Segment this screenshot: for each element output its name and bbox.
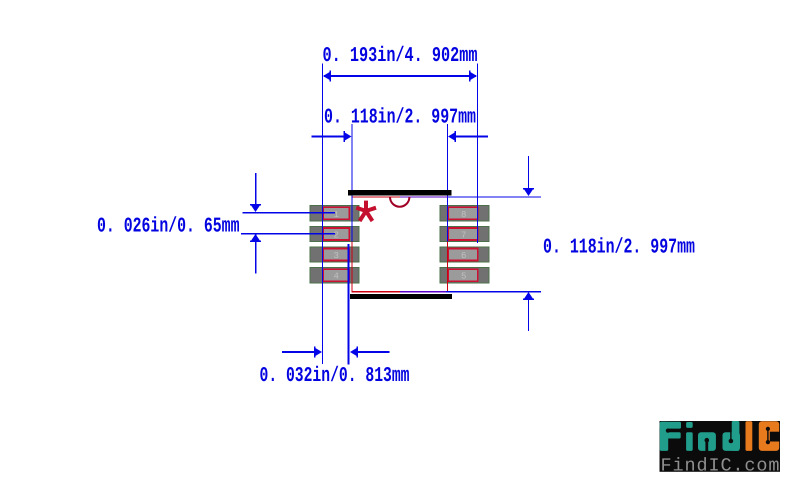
- pad 5: [440, 267, 489, 282]
- svg-text:7: 7: [461, 231, 466, 241]
- arrow line right pointing left: [455, 136, 488, 138]
- extension line x=352: [352, 124, 353, 241]
- svg-text:6: 6: [461, 251, 466, 261]
- pin 7 lead: [448, 228, 477, 240]
- FindIC logo background: [660, 421, 781, 472]
- svg-text:0. 118in/2. 997mm: 0. 118in/2. 997mm: [324, 106, 476, 129]
- arrow line left pointing right: [312, 136, 345, 138]
- logo letter n: [698, 432, 716, 451]
- bottom arrow left pointing right: [282, 351, 320, 353]
- pin 1 lead: [323, 207, 349, 219]
- bottom arrow right pointing left: [352, 351, 390, 353]
- right dim arrow top (down): [528, 156, 529, 192]
- pad 6: [440, 247, 489, 262]
- svg-text:FindIC.com: FindIC.com: [661, 456, 780, 477]
- dimension line top: [324, 75, 476, 77]
- pad 7: [440, 226, 489, 241]
- svg-text:3: 3: [334, 251, 339, 261]
- package bottom bar: [350, 294, 452, 299]
- pin 4 lead: [323, 269, 349, 281]
- pin1 notch arc: [390, 197, 409, 207]
- logo letter C: [759, 421, 779, 451]
- pin 2 lead: [323, 228, 349, 240]
- pin 3 lead: [323, 249, 349, 261]
- package top bar: [348, 190, 452, 196]
- svg-text:0. 026in/0. 65mm: 0. 026in/0. 65mm: [97, 216, 240, 239]
- package body top edge purple overlap: [400, 196, 448, 197]
- pad 8: [440, 206, 489, 221]
- svg-text:0. 193in/4. 902mm: 0. 193in/4. 902mm: [323, 45, 478, 68]
- pin 5 lead: [448, 269, 477, 281]
- right dim extension top blue: [448, 196, 541, 197]
- extension line right x=477.5: [477, 64, 478, 244]
- package body bottom edge purple overlap: [400, 291, 446, 292]
- pin 8 lead: [448, 207, 477, 219]
- svg-text:2: 2: [334, 231, 339, 241]
- svg-text:1: 1: [334, 210, 339, 220]
- pitch arrow upper (down): [255, 173, 256, 205]
- svg-text:4: 4: [334, 272, 339, 282]
- pad 4: [310, 267, 359, 282]
- svg-text:0. 118in/2. 997mm: 0. 118in/2. 997mm: [543, 236, 695, 259]
- package body right edge: [447, 197, 448, 292]
- logo letter i: [686, 422, 693, 428]
- pin1 marker asterisk: [356, 201, 376, 221]
- logo letter d: [723, 432, 741, 451]
- extension line x=447.5: [447, 124, 448, 241]
- pitch arrow lower (up): [255, 234, 256, 274]
- svg-text:5: 5: [461, 272, 466, 282]
- logo letter I: [746, 421, 753, 451]
- package body bottom edge red: [351, 291, 400, 292]
- package body left edge: [352, 197, 353, 292]
- right dim extension bottom blue: [446, 291, 541, 292]
- package body top edge red: [351, 196, 400, 197]
- extension line x=348.5: [348, 244, 350, 365]
- logo letter F: [660, 422, 681, 451]
- pitch line lower: [241, 233, 335, 235]
- pad 2: [310, 226, 359, 241]
- svg-text:0. 032in/0. 813mm: 0. 032in/0. 813mm: [260, 365, 410, 388]
- arrowhead right outward: [470, 72, 478, 81]
- svg-text:8: 8: [461, 210, 466, 220]
- pin 6 lead: [448, 249, 477, 261]
- arrowhead left outward: [323, 72, 331, 81]
- extension line left x=322.5: [322, 64, 323, 365]
- pad 1: [310, 206, 359, 221]
- pad 3: [310, 247, 359, 262]
- pitch line upper: [243, 212, 336, 214]
- right dim arrow bottom (up): [528, 296, 529, 331]
